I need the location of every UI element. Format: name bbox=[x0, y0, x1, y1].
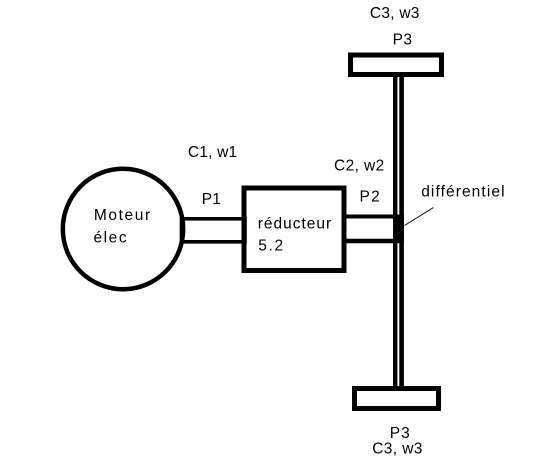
leader line to differential bbox=[405, 208, 434, 226]
wheel bottom bbox=[355, 389, 439, 409]
svg-text:C3, w3: C3, w3 bbox=[370, 5, 420, 22]
motor circle bbox=[63, 169, 183, 289]
svg-text:Moteur: Moteur bbox=[94, 207, 152, 224]
svg-text:C1, w1: C1, w1 bbox=[188, 144, 237, 161]
svg-text:différentiel: différentiel bbox=[421, 184, 505, 201]
svg-text:élec: élec bbox=[94, 230, 129, 247]
svg-text:P2: P2 bbox=[360, 188, 382, 205]
shaft reducer to differential (top line) bbox=[346, 215, 396, 219]
reducer box bbox=[244, 188, 344, 271]
svg-text:P1: P1 bbox=[202, 191, 221, 208]
svg-text:réducteur: réducteur bbox=[258, 215, 332, 232]
axle shaft (vertical, right line) bbox=[399, 74, 404, 389]
wheel top bbox=[351, 55, 442, 75]
svg-text:C2, w2: C2, w2 bbox=[334, 158, 385, 175]
differential block bbox=[394, 215, 405, 244]
shaft reducer to differential (bottom line) bbox=[346, 239, 396, 243]
svg-text:P3: P3 bbox=[393, 32, 413, 49]
axle shaft (vertical, left line) bbox=[393, 74, 397, 389]
svg-text:5.2: 5.2 bbox=[258, 237, 285, 254]
svg-text:C3, w3: C3, w3 bbox=[372, 440, 423, 457]
shaft motor to reducer bbox=[182, 219, 246, 242]
